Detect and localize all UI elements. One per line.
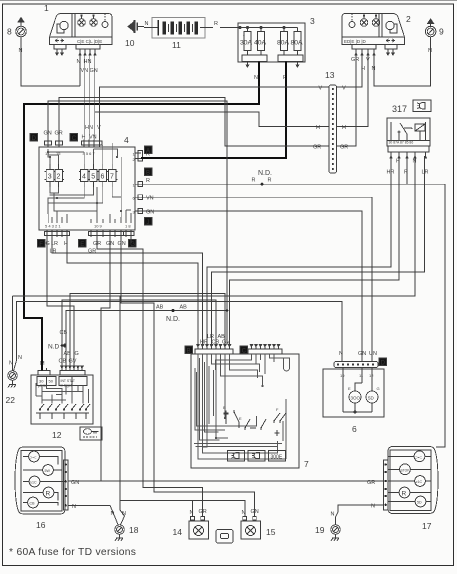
wire box4 G GN to comp7 xyxy=(130,237,132,243)
svg-text:N: N xyxy=(428,48,432,54)
connector label B at 7 xyxy=(185,346,193,354)
connector label E xyxy=(79,240,87,248)
fuse 3 in box 4 xyxy=(45,164,56,187)
svg-text:CB: CB xyxy=(212,340,220,346)
icon box low beam in 7 xyxy=(228,451,245,462)
svg-text:30A: 30A xyxy=(240,40,253,47)
wire N drop to lamp 14 xyxy=(192,501,194,517)
fuse 6 in box 4 xyxy=(98,164,109,187)
svg-text:⊃•⊂: ⊃•⊂ xyxy=(415,455,422,459)
svg-text:E: E xyxy=(348,386,351,391)
N.D. junction on CB wire xyxy=(61,344,64,347)
wire lamp1 GN to box4 C xyxy=(94,56,96,140)
svg-text:5: 5 xyxy=(91,173,95,180)
svg-text:80A: 80A xyxy=(291,40,304,47)
svg-text:B: B xyxy=(187,348,191,354)
svg-text:AB: AB xyxy=(156,305,164,311)
svg-text:⊃•⊂: ⊃•⊂ xyxy=(30,456,37,460)
svg-text:5D: 5D xyxy=(417,501,422,505)
wire lamp1 N down xyxy=(79,56,81,87)
svg-text:F: F xyxy=(276,407,279,412)
svg-text:N: N xyxy=(372,66,376,72)
svg-text:R: R xyxy=(46,491,51,498)
thick battery R feed wire xyxy=(141,62,286,159)
connector label J xyxy=(145,218,153,226)
key icon box beside 12 xyxy=(80,427,102,440)
svg-text:ED|E |D |D: ED|E |D |D xyxy=(344,39,367,44)
ground point 19 xyxy=(331,517,341,541)
svg-text:5D: 5D xyxy=(368,396,375,401)
N.D. junction on AB wire xyxy=(172,309,175,312)
wire H line box4 to 13 xyxy=(95,112,329,140)
12 top pins xyxy=(38,371,50,376)
svg-text:7: 7 xyxy=(304,459,309,469)
wire box4 E GN to lamps 16 and 17 xyxy=(101,237,384,481)
svg-text:7: 7 xyxy=(110,173,114,180)
connector label G xyxy=(129,240,137,248)
svg-text:3: 3 xyxy=(310,16,315,26)
svg-text:UN: UN xyxy=(369,351,377,357)
svg-text:N: N xyxy=(254,75,258,81)
icon box 300E in 7 xyxy=(269,451,286,462)
wire lamp16 GN stub xyxy=(68,480,101,482)
svg-text:CB: CB xyxy=(30,502,36,506)
svg-text:≥1C: ≥1C xyxy=(30,481,37,485)
wire N drops to ground 22 xyxy=(11,296,13,355)
wire relay HR to comp7 B xyxy=(207,156,391,345)
svg-text:D: D xyxy=(381,360,386,366)
svg-text:R: R xyxy=(146,152,150,158)
svg-text:14: 14 xyxy=(173,527,183,537)
svg-text:V: V xyxy=(342,86,346,92)
box 4 right pin 6 (VN) xyxy=(135,196,141,198)
wire lamp1 HN to box4 C xyxy=(84,56,86,140)
box 4 right pin 3 (GN) xyxy=(135,210,141,212)
wire R right end down to lamp 17 feed xyxy=(436,184,445,447)
svg-text:317: 317 xyxy=(392,104,407,114)
svg-text:12: 12 xyxy=(52,430,62,440)
svg-text:4: 4 xyxy=(82,173,86,180)
svg-text:6: 6 xyxy=(101,173,105,180)
svg-text:GN: GN xyxy=(90,68,98,74)
rear lamp unit 17 xyxy=(384,447,439,514)
rear lamp unit 16 xyxy=(15,447,68,514)
wire GN line box4 to comp6 GN xyxy=(141,211,362,362)
svg-text:F: F xyxy=(39,242,43,248)
N.D. junction on R line xyxy=(261,183,264,186)
svg-text:VN: VN xyxy=(89,135,97,141)
svg-text:N: N xyxy=(145,21,149,27)
svg-text:GR: GR xyxy=(340,145,348,151)
wire lamp2 N to ground 9 xyxy=(374,44,431,86)
svg-text:3OO: 3OO xyxy=(351,396,361,401)
svg-text:R: R xyxy=(402,491,407,498)
fuse 5 in box 4 xyxy=(88,164,99,187)
connector label B xyxy=(145,168,153,176)
column switch 7 xyxy=(191,345,299,469)
battery 11 xyxy=(144,18,213,39)
svg-text:50: 50 xyxy=(49,379,54,384)
svg-text:22: 22 xyxy=(6,395,16,405)
svg-text:B: B xyxy=(223,405,226,410)
svg-text:LR: LR xyxy=(422,170,429,176)
svg-text:11: 11 xyxy=(359,373,364,378)
svg-text:4 5 6 7: 4 5 6 7 xyxy=(83,151,96,156)
fuse 2 in box 4 xyxy=(53,164,64,187)
wire H right of 13 to lamp2 xyxy=(337,53,369,127)
svg-text:30: 30 xyxy=(39,379,44,384)
svg-text:4: 4 xyxy=(124,135,129,145)
wire ignition CB to comp7 xyxy=(62,300,216,366)
svg-text:11: 11 xyxy=(172,40,181,50)
fuse box 3 xyxy=(238,23,305,67)
box 4 top pins (connector C pins 4 5 6 7) xyxy=(83,140,85,148)
wire box4 F H to comp7 xyxy=(67,237,198,345)
ground point 18 xyxy=(115,516,125,541)
ground point 22 xyxy=(8,355,18,388)
wire box4 E GN2 to lamp 15 xyxy=(121,237,255,517)
wire VN line box4 to comp6 UN xyxy=(141,197,372,361)
box 4 right pins A (1 2) xyxy=(135,152,141,154)
svg-text:HR: HR xyxy=(387,170,395,176)
svg-text:J: J xyxy=(146,220,149,226)
wire lamp1 VN to box4 C xyxy=(89,56,91,140)
svg-text:LR: LR xyxy=(50,249,57,255)
svg-text:17: 17 xyxy=(422,521,432,531)
svg-text:15: 15 xyxy=(56,151,61,156)
wire box4 E GR to lamp 14 xyxy=(97,237,203,517)
wire battery R to fusebox xyxy=(220,27,240,29)
svg-text:G: G xyxy=(377,386,380,391)
wire box4 F G to ignition 12 xyxy=(47,237,74,366)
wire relay R to comp7 C xyxy=(406,156,408,184)
switch 7 internal wiring xyxy=(194,354,290,459)
svg-text:E: E xyxy=(80,242,84,248)
relay 317 icon box (low beam symbol) xyxy=(413,100,431,112)
ground point 8 xyxy=(16,18,27,45)
box 4 internal wiring xyxy=(47,143,131,223)
svg-text:GN: GN xyxy=(118,241,126,247)
wire GR line box4 D to 13 xyxy=(59,98,329,147)
svg-text:19: 19 xyxy=(315,525,325,535)
svg-text:C: C xyxy=(72,136,77,142)
svg-text:In tAgeS: In tAgeS xyxy=(61,384,73,388)
ignition switch 12 xyxy=(31,366,93,424)
connector label C xyxy=(70,134,78,142)
horn/ground symbol 10 xyxy=(128,20,144,33)
svg-text:V: V xyxy=(319,86,323,92)
svg-text:HN: HN xyxy=(85,125,93,131)
svg-text:N.D: N.D xyxy=(48,344,60,351)
wire relay N to N bus xyxy=(12,156,415,296)
wire comp6 N to ground 22 xyxy=(17,302,342,362)
fuse 4 in box 4 xyxy=(79,164,90,187)
svg-text:2: 2 xyxy=(56,173,60,180)
wire N to ground 18 xyxy=(120,501,125,517)
svg-text:E: E xyxy=(239,416,242,421)
svg-text:N: N xyxy=(413,159,417,165)
svg-text:13: 13 xyxy=(325,70,335,80)
svg-text:80A: 80A xyxy=(277,40,290,47)
svg-text:8: 8 xyxy=(7,27,12,37)
svg-text:N: N xyxy=(19,48,23,54)
svg-text:N: N xyxy=(18,355,22,361)
svg-text:C|E C|L |D|E: C|E C|L |D|E xyxy=(77,39,102,44)
svg-text:10 9: 10 9 xyxy=(94,224,103,229)
svg-text:N: N xyxy=(371,504,375,510)
box 4 top pins (connector D pins 17 15) xyxy=(47,140,49,148)
thick battery N feed wire xyxy=(24,62,259,369)
svg-text:H: H xyxy=(316,125,320,131)
N.D. tap at 12 xyxy=(48,344,66,351)
headlamp unit 1 xyxy=(50,14,113,56)
svg-text:G: G xyxy=(75,351,79,357)
svg-text:10: 10 xyxy=(125,38,135,48)
svg-text:5 4 3 2 1: 5 4 3 2 1 xyxy=(45,224,61,229)
connector label A xyxy=(145,146,153,154)
licence plate lamp 14 xyxy=(189,517,209,540)
connector strip 13 xyxy=(329,85,337,173)
svg-text:18: 18 xyxy=(129,525,139,535)
interior lamp 6 xyxy=(323,362,384,418)
svg-text:300E: 300E xyxy=(271,455,283,461)
svg-text:3: 3 xyxy=(48,173,52,180)
svg-text:V: V xyxy=(97,125,101,131)
svg-text:9: 9 xyxy=(439,27,444,37)
svg-text:N.D.: N.D. xyxy=(166,316,180,323)
connector label F xyxy=(38,240,46,248)
svg-text:R: R xyxy=(214,21,218,27)
wire N bus drop to rear lamps xyxy=(120,296,245,517)
svg-text:R: R xyxy=(268,178,272,184)
svg-text:17: 17 xyxy=(45,151,50,156)
svg-text:N.D.: N.D. xyxy=(258,170,272,177)
svg-text:15: 15 xyxy=(266,527,276,537)
wire V right of 13 to lamp2 xyxy=(337,53,363,87)
box 4 right pin B (1) xyxy=(135,183,141,185)
svg-text:STOP: STOP xyxy=(401,468,411,472)
relay 317 xyxy=(387,118,430,158)
switch contacts row in 12 xyxy=(36,404,90,419)
wire relay LR to comp7 C xyxy=(212,156,425,345)
wire box4 F LR to comp7 xyxy=(52,237,203,345)
switch 7 connector strip B xyxy=(195,349,233,354)
svg-text:40A: 40A xyxy=(254,40,267,47)
icon box high beam in 7 xyxy=(248,451,265,462)
svg-text:D: D xyxy=(32,136,37,142)
svg-text:* 60A fuse for TD versions: * 60A fuse for TD versions xyxy=(9,547,136,558)
svg-text:16: 16 xyxy=(36,520,46,530)
licence plate icon box xyxy=(216,530,233,544)
wire GR right of 13 to lamp2 xyxy=(337,53,357,146)
svg-text:GR: GR xyxy=(88,249,96,255)
svg-text:6: 6 xyxy=(352,424,357,434)
svg-text:INT STAT: INT STAT xyxy=(61,379,76,383)
wire relay H to comp7 B xyxy=(230,156,400,345)
svg-text:GV: GV xyxy=(222,340,230,346)
svg-text:CB: CB xyxy=(59,359,67,365)
svg-text:R: R xyxy=(252,178,256,184)
headlamp unit 2 xyxy=(342,14,405,56)
svg-text:N: N xyxy=(331,512,335,518)
licence plate lamp 15 xyxy=(241,517,261,540)
svg-text:N: N xyxy=(9,361,13,367)
svg-text:VN: VN xyxy=(146,196,154,202)
fuse 7 in box 4 xyxy=(107,164,118,187)
wire lamp17 N to ground 19 xyxy=(336,505,384,517)
svg-text:2: 2 xyxy=(406,14,411,24)
wire V line box4 to 13 and comp7 xyxy=(100,87,330,140)
svg-text:GN: GN xyxy=(146,210,154,216)
wire R N.D. line box4 B to relay R xyxy=(141,183,445,185)
svg-text:1: 1 xyxy=(44,3,49,13)
switch 7 connector strip C xyxy=(248,349,282,354)
connector label D at 6 xyxy=(379,358,387,366)
wire lamp16 N to ground 18 xyxy=(68,505,115,516)
svg-text:GR: GR xyxy=(313,145,321,151)
svg-text:B: B xyxy=(146,170,150,176)
svg-text:C: C xyxy=(242,348,247,354)
ground point 9 xyxy=(425,19,436,44)
svg-text:GR: GR xyxy=(351,57,359,63)
svg-text:AB: AB xyxy=(180,305,188,311)
svg-text:G: G xyxy=(46,241,50,247)
svg-text:1 8: 1 8 xyxy=(125,224,131,229)
svg-text:30 87A 87 85 86: 30 87A 87 85 86 xyxy=(389,141,414,145)
wire comp8 ground to lamp1 N xyxy=(21,44,80,86)
wire ignition AB to comp7 with N.D. tap xyxy=(66,311,227,367)
svg-text:≥1C: ≥1C xyxy=(416,480,423,484)
connector label D xyxy=(30,134,38,142)
junction unit 4 box xyxy=(30,125,152,255)
wire ignition GV to comp7 xyxy=(70,294,225,367)
svg-text:R: R xyxy=(146,178,150,184)
connector label C at 7 xyxy=(240,346,248,354)
svg-text:H: H xyxy=(342,125,346,131)
switch contacts inside 7 xyxy=(223,405,286,436)
svg-text:5W: 5W xyxy=(45,469,51,473)
wire GN line box4 D to comp7 C xyxy=(48,101,227,311)
